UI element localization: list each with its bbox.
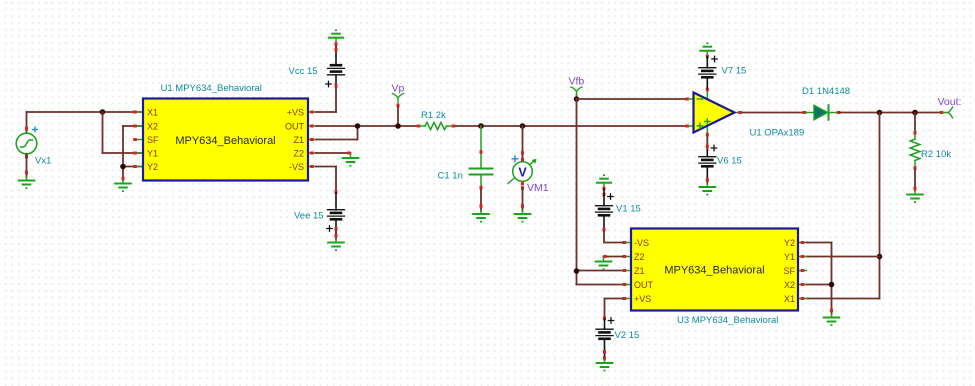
svg-text:Vcc 15: Vcc 15 (289, 66, 318, 77)
svg-text:Y1: Y1 (784, 252, 795, 262)
wire: source Vx1 top to U1 X1 input (27, 112, 144, 132)
battery Vcc 15 (326, 29, 345, 87)
svg-text:U1 MPY634_Behavioral: U1 MPY634_Behavioral (161, 83, 262, 94)
label Vx1 (35, 156, 51, 167)
node Vfb marker (571, 87, 582, 99)
op-amp U1 OPAx189 (685, 88, 742, 137)
label VM1 (527, 182, 549, 194)
svg-text:VM1: VM1 (527, 182, 549, 194)
multiplier U1 MPY634_Behavioral (133, 99, 316, 181)
junction X2/Y2 tie (120, 164, 126, 170)
wire: source bottom to ground (25, 154, 28, 177)
wire: rail down to VM1 (521, 126, 524, 162)
wire: op-amp output to diode (743, 112, 804, 114)
label Vcc 15 (289, 66, 318, 77)
junction Vp on rail (395, 123, 401, 129)
wire: V1 to U3 -VS (604, 231, 623, 243)
label V2 15 (615, 330, 640, 341)
junction U3 Z1 (574, 268, 580, 274)
svg-text:Vp: Vp (392, 83, 405, 95)
label C1 1n (438, 171, 463, 182)
svg-text:V1 15: V1 15 (616, 204, 641, 215)
ground at Z2 (343, 155, 359, 167)
wire: U3 +VS to V2 (605, 299, 624, 320)
junction feedback drop (877, 110, 883, 116)
wire: VM1 bottom to ground (521, 188, 524, 211)
svg-text:V7 15: V7 15 (722, 66, 747, 77)
junction VM1 tap (520, 123, 526, 129)
svg-text:X1: X1 (147, 108, 158, 118)
svg-text:Vx1: Vx1 (35, 156, 51, 167)
wire: junction down to Y1 pin (103, 112, 144, 153)
label R2 10k (921, 149, 951, 160)
svg-text:Y2: Y2 (784, 238, 795, 248)
wire: +VS to Vcc (316, 86, 336, 112)
node Vout marker (940, 107, 953, 118)
svg-text:D1 1N4148: D1 1N4148 (802, 86, 850, 97)
svg-text:OUT: OUT (285, 122, 305, 132)
wire: C1 bottom to ground (480, 189, 483, 211)
junction Vfb (574, 96, 580, 102)
wire: U1 OUT to op-amp + input (main rail) (316, 125, 686, 127)
ground below VM1 (515, 211, 531, 223)
svg-text:OUT: OUT (634, 280, 654, 290)
battery V6 15 (699, 145, 717, 195)
ground below U3 X2/Y2 (824, 314, 840, 326)
svg-text:SF: SF (783, 266, 795, 276)
wire: Z2 to ground (316, 152, 351, 155)
wire: -VS to Vee (316, 167, 336, 194)
svg-text:Z2: Z2 (634, 252, 645, 262)
diode D1 1N4148 (803, 105, 841, 120)
svg-text:U1 OPAx189: U1 OPAx189 (750, 128, 805, 139)
svg-text:Vout:: Vout: (938, 96, 962, 108)
wire: op-amp bottom supply to V6 (706, 137, 709, 150)
svg-text:X1: X1 (784, 294, 795, 304)
node Vp marker (393, 94, 404, 127)
voltage source Vx1 (16, 127, 37, 159)
label U1 OPAx189 (750, 128, 805, 139)
junction R2 tap (912, 110, 918, 116)
svg-text:Y2: Y2 (147, 162, 158, 172)
svg-text:+VS: +VS (287, 108, 304, 118)
svg-text:X2: X2 (147, 122, 158, 132)
svg-text:V2 15: V2 15 (615, 330, 640, 341)
label U3 MPY634_Behavioral (677, 315, 778, 326)
svg-text:C1 1n: C1 1n (438, 171, 463, 182)
wire: Vfb down to U3 Z1/OUT (577, 99, 624, 285)
svg-text:Y1: Y1 (147, 149, 158, 159)
junction U3 X2/Y2 tie (829, 282, 835, 288)
svg-text:SF: SF (147, 135, 159, 145)
wire: X2 to Y2 tie with ground tap (123, 126, 143, 180)
junction node: source to X1/Y1 tap (100, 109, 106, 115)
ground at U3 Z2 (596, 258, 612, 270)
svg-text:V6 15: V6 15 (717, 156, 742, 167)
voltmeter VM1 (508, 156, 537, 190)
svg-text:Z1: Z1 (634, 266, 645, 276)
label V6 15 (717, 156, 742, 167)
svg-text:V: V (518, 166, 527, 180)
battery Vee 15 (327, 190, 345, 251)
battery V2 15 (596, 317, 614, 372)
wire: Z1 up to OUT rail (316, 126, 358, 140)
svg-text:Z2: Z2 (293, 149, 304, 159)
label Vee 15 (294, 211, 324, 222)
multiplier U3 MPY634_Behavioral (623, 229, 807, 311)
svg-text:U3 MPY634_Behavioral: U3 MPY634_Behavioral (677, 315, 778, 326)
svg-text:-VS: -VS (289, 162, 304, 172)
svg-text:R1 2k: R1 2k (421, 110, 446, 121)
label U1 MPY634_Behavioral (161, 83, 262, 94)
label D1 1N4148 (802, 86, 850, 97)
wire: U3 Y2/X2 tie to ground (807, 243, 834, 315)
ground below C1 (473, 211, 489, 223)
resistor R1 2k (417, 122, 456, 129)
wire: feedback from Vout rail down to U3 X1/Y1 (807, 113, 880, 299)
wire: U3 Z2 to ground (603, 255, 623, 258)
label Vfb (569, 76, 585, 88)
label V7 15 (722, 66, 747, 77)
wire: U3 Y1 to feedback line (807, 256, 880, 258)
junction U3 Y1 feedback (877, 254, 883, 260)
svg-text:MPY634_Behavioral: MPY634_Behavioral (175, 135, 275, 147)
wire: Vfb to op-amp inverting input (577, 98, 686, 100)
svg-text:Z1: Z1 (293, 135, 304, 145)
junction C1 tap (478, 123, 484, 129)
junction Z1/OUT (355, 123, 361, 129)
label Vout: (938, 96, 962, 108)
capacitor C1 1n (470, 126, 493, 189)
wire: junction to U3 Z1 pin (577, 270, 624, 272)
label V1 15 (616, 204, 641, 215)
wire: diode to Vout (840, 112, 940, 114)
ground below source Vx1 (19, 177, 35, 189)
label R1 2k (421, 110, 446, 121)
svg-text:R2 10k: R2 10k (921, 149, 951, 160)
battery V1 15 (596, 174, 614, 231)
svg-text:Vee 15: Vee 15 (294, 211, 324, 222)
battery V7 15 (699, 42, 717, 88)
ground below X2/Y2 tie (115, 177, 131, 192)
svg-text:Vfb: Vfb (569, 76, 585, 88)
label Vp (392, 83, 405, 95)
svg-text:MPY634_Behavioral: MPY634_Behavioral (664, 265, 764, 277)
svg-text:-VS: -VS (634, 238, 649, 248)
svg-text:X2: X2 (784, 280, 795, 290)
resistor R2 10k (907, 113, 923, 204)
svg-text:+VS: +VS (634, 294, 651, 304)
